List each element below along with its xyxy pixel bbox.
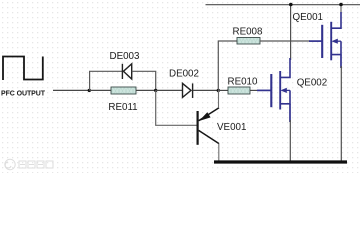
wire: top rail down to QE001 drain — [340, 5, 342, 15]
svg-text:QE002: QE002 — [297, 78, 328, 89]
mosfet QE001 — [309, 12, 341, 68]
mosfet QE002 — [257, 58, 290, 122]
watermark logo — [5, 159, 53, 169]
wire: QE001 source down to ground rail — [340, 66, 342, 161]
wire: DE003 to node B branch — [132, 71, 156, 90]
wire: node A into RE011 — [89, 89, 111, 91]
svg-text:VE001: VE001 — [217, 122, 246, 133]
junction node C — [217, 89, 220, 92]
junction node B — [154, 89, 157, 92]
wire: RE008 to QE001 gate — [260, 40, 310, 42]
wire: node C up and right to RE008 — [218, 41, 237, 90]
wire: node C into RE010 — [218, 89, 228, 91]
svg-text:RE008: RE008 — [233, 27, 264, 38]
wire: DE002 cathode to node C — [193, 89, 219, 91]
junction: top rail / QE002 drain — [289, 3, 293, 7]
wire: VE001 collector down to ground rail — [218, 144, 220, 161]
svg-text:QE001: QE001 — [293, 12, 324, 23]
svg-text:RE011: RE011 — [108, 102, 137, 113]
wire: node B to DE002 anode — [156, 89, 183, 91]
diode DE003 (cathode left) — [122, 64, 131, 79]
diode DE002 (anode left) — [183, 83, 193, 98]
resistor RE008 — [237, 38, 260, 45]
svg-text:PFC OUTPUT: PFC OUTPUT — [1, 91, 46, 98]
junction: top rail / QE001 drain — [339, 3, 343, 7]
wire: VE001 emitter up to node C — [218, 90, 220, 107]
wire: QE002 source down to ground rail — [289, 120, 291, 161]
square-wave source symbol (PFC output) — [3, 57, 43, 81]
top rail wire — [206, 4, 360, 6]
resistor RE010 — [228, 87, 250, 94]
wire: source to node A — [53, 89, 89, 91]
svg-text:DE002: DE002 — [169, 68, 199, 79]
transistor VE001 (PNP, emitter up) — [198, 108, 219, 145]
resistor RE011 — [111, 87, 136, 94]
wire: RE010 to QE002 gate — [250, 89, 257, 91]
wire: top rail down to QE002 drain — [290, 5, 292, 61]
svg-text:RE010: RE010 — [228, 76, 259, 87]
junction node A — [88, 89, 91, 92]
wire: node B down to VE001 base — [156, 90, 197, 125]
wire: node A up to DE003 branch — [90, 71, 122, 90]
wire: RE011 to node B — [136, 89, 156, 91]
svg-text:DE003: DE003 — [110, 51, 141, 62]
ground bus (bottom rail) — [214, 160, 347, 163]
